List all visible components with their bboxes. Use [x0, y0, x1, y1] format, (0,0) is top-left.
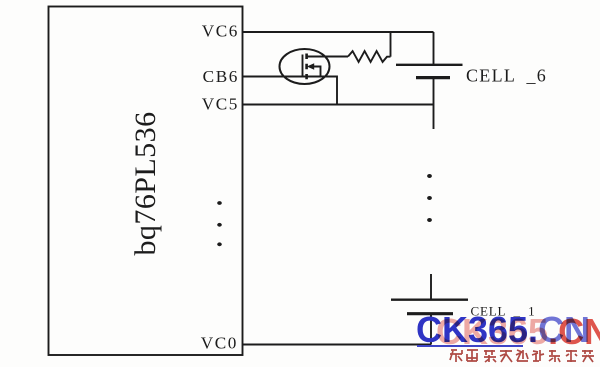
wire bus to CELL_1 plus	[430, 274, 432, 299]
wire resistor right stub up to VC6 line	[390, 32, 392, 57]
wire VC6 pin to right bus	[243, 31, 434, 33]
watermark blue main copy	[416, 312, 590, 348]
IC U1 bq76PL536 body	[49, 7, 243, 356]
Q1 gate line	[302, 55, 304, 77]
transistor Q1 body ellipse	[280, 49, 330, 84]
battery CELL_1 long plate	[391, 299, 468, 301]
wire CB6 pin to MOSFET source	[243, 76, 337, 78]
ellipsis dots inside IC	[217, 201, 222, 246]
battery CELL_6 long plate	[396, 64, 463, 66]
watermark red offset copy	[436, 314, 600, 350]
watermark blue underline	[417, 345, 523, 347]
wire VC0 pin to CELL_1	[243, 344, 431, 346]
wire bus below CELL_6 minus	[433, 78, 435, 129]
Q1 drain lead to resistor	[307, 56, 349, 58]
ellipsis dots on right bus	[427, 174, 432, 222]
battery CELL_6 short plate	[416, 76, 450, 79]
Q1 body arrow shaft and down leg	[309, 67, 321, 77]
wire VC5 pin to right bus	[243, 104, 434, 106]
wire CB6 corner down to VC5 line	[336, 76, 338, 105]
Q1 channel ticks	[305, 54, 308, 80]
battery CELL_1 short plate	[407, 312, 453, 315]
resistor R1 zigzag	[348, 51, 391, 62]
wire CELL_1 minus down to VC0 line	[430, 314, 432, 345]
Q1 body arrow head	[307, 63, 314, 70]
wire right bus down to CELL_6 plus	[433, 32, 435, 64]
